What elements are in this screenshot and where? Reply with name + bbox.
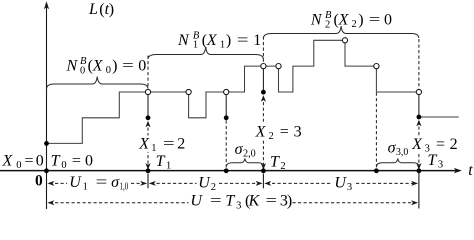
- svg-text:T0=0: T0=0: [51, 153, 93, 172]
- svg-text:0: 0: [35, 172, 43, 189]
- svg-text:t: t: [468, 162, 473, 179]
- svg-text:L(t): L(t): [88, 1, 114, 18]
